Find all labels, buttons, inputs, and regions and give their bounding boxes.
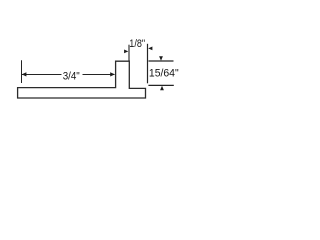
arrowhead 1/8 inch left (points right) [124, 50, 128, 54]
arrowhead 1/8 inch right (points left) [148, 47, 152, 51]
extension line (3/4 inch, left vertical) [21, 60, 23, 83]
dimension line 3/4 inch right segment [83, 74, 115, 76]
extension line (1/8 inch, right vertical) [147, 44, 149, 84]
extension line (1/8 inch, above tab right edge) [128, 45, 130, 61]
arrowhead 3/4 inch right (points right) [110, 72, 115, 76]
dimension line 3/4 inch left segment [22, 74, 62, 76]
svg-text:3/4": 3/4" [63, 70, 80, 82]
arrowhead 15/64 inch top (points down) [159, 56, 163, 61]
svg-text:15/64": 15/64" [149, 67, 179, 79]
extension line (15/64 inch, bottom horizontal) [148, 84, 173, 86]
extension line (15/64 inch, top horizontal) [149, 60, 174, 62]
arrowhead 3/4 inch left (points left) [22, 72, 27, 76]
arrowhead 15/64 inch bottom (points up) [160, 86, 164, 91]
profile outline [18, 61, 146, 98]
svg-text:1/8": 1/8" [129, 38, 145, 50]
